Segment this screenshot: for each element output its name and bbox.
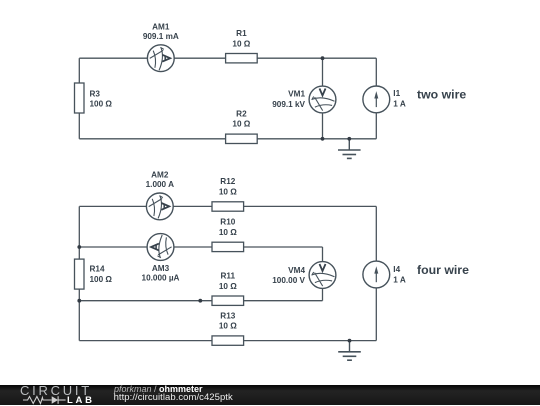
svg-text:10 Ω: 10 Ω bbox=[219, 282, 237, 291]
svg-text:1.000 A: 1.000 A bbox=[146, 180, 174, 189]
svg-text:AM3: AM3 bbox=[152, 264, 170, 273]
svg-text:R11: R11 bbox=[221, 271, 236, 280]
svg-text:R14: R14 bbox=[90, 265, 105, 274]
svg-text:R3: R3 bbox=[90, 89, 101, 98]
svg-text:R13: R13 bbox=[220, 311, 235, 320]
svg-text:1 A: 1 A bbox=[393, 275, 406, 284]
svg-text:AM2: AM2 bbox=[151, 170, 169, 179]
svg-text:two wire: two wire bbox=[417, 87, 466, 101]
svg-text:10.000 µA: 10.000 µA bbox=[142, 274, 180, 283]
svg-text:10 Ω: 10 Ω bbox=[232, 119, 250, 128]
svg-text:10 Ω: 10 Ω bbox=[232, 39, 250, 48]
svg-text:four wire: four wire bbox=[417, 263, 469, 277]
svg-text:VM1: VM1 bbox=[288, 89, 305, 98]
svg-text:100 Ω: 100 Ω bbox=[90, 275, 113, 284]
svg-text:R2: R2 bbox=[236, 110, 247, 119]
svg-text:VM4: VM4 bbox=[288, 266, 305, 275]
svg-text:R1: R1 bbox=[236, 29, 247, 38]
svg-text:10 Ω: 10 Ω bbox=[219, 322, 237, 331]
svg-text:10 Ω: 10 Ω bbox=[219, 188, 237, 197]
svg-text:I1: I1 bbox=[393, 89, 400, 98]
svg-text:1 A: 1 A bbox=[393, 100, 406, 109]
svg-text:AM1: AM1 bbox=[152, 22, 170, 31]
svg-text:100 Ω: 100 Ω bbox=[90, 100, 113, 109]
svg-text:I4: I4 bbox=[393, 265, 400, 274]
svg-text:100.00 V: 100.00 V bbox=[272, 276, 305, 285]
svg-text:R10: R10 bbox=[220, 218, 235, 227]
svg-text:10 Ω: 10 Ω bbox=[219, 228, 237, 237]
svg-text:R12: R12 bbox=[220, 177, 235, 186]
svg-text:909.1 mA: 909.1 mA bbox=[143, 32, 179, 41]
svg-text:909.1 kV: 909.1 kV bbox=[272, 100, 305, 109]
